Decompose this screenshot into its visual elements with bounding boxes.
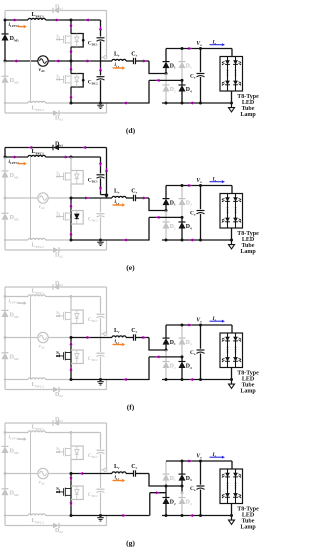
svg-text:(g): (g) bbox=[126, 539, 135, 548]
wire top left bbox=[5, 19, 28, 21]
wire CDC1 bottom lead bbox=[100, 41, 102, 61]
wire S2 drain lead bbox=[70, 61, 72, 74]
inductor LPFC1 bbox=[28, 155, 46, 157]
diode DM1 bbox=[2, 34, 9, 41]
svg-text:Lamp: Lamp bbox=[240, 525, 256, 531]
inductor LPFC1 bbox=[28, 18, 46, 20]
node neg rail Co bbox=[199, 102, 202, 105]
wire lamp bottom lead bbox=[231, 368, 233, 380]
wire CDC1 bottom lead bbox=[100, 454, 102, 474]
wire D3 cathode leg bbox=[181, 186, 183, 199]
node AC2 crossover bbox=[181, 485, 184, 488]
LED D_L bottom bbox=[233, 493, 238, 497]
wire D2 cathode leg bbox=[165, 350, 167, 362]
arrow current switch branch bbox=[70, 66, 73, 70]
capacitor CDC2 bbox=[97, 352, 105, 354]
wire to Db2 line bbox=[4, 516, 6, 526]
node S1 body-diode branch bbox=[82, 39, 85, 42]
wire Db2 line right bbox=[59, 112, 107, 114]
diode DM1 bbox=[2, 171, 9, 178]
diode Db1 bbox=[53, 420, 59, 426]
wire Db1 line left bbox=[5, 147, 53, 149]
wire Db2 line right bbox=[59, 249, 107, 251]
capacitor CDC1 bbox=[97, 449, 105, 451]
node A input top bbox=[4, 295, 7, 298]
node neg rail lamp bbox=[230, 378, 233, 381]
node LED string ellipsis dot bbox=[227, 209, 229, 211]
transistor S2 bbox=[57, 212, 71, 221]
node AC1 bbox=[165, 209, 168, 212]
source vAC bbox=[38, 193, 48, 203]
wire S2 source lead bbox=[70, 500, 72, 516]
wire to Db2 line bbox=[4, 103, 6, 113]
wire S1 body-diode branch bbox=[71, 310, 83, 324]
wire node A to Db1 line bbox=[4, 11, 6, 21]
wire Db1 line right bbox=[59, 10, 107, 12]
inductor LPFC2 bbox=[28, 514, 46, 516]
wire DM1 anode lead bbox=[4, 177, 6, 198]
wire S2 channel path bbox=[70, 211, 72, 225]
wire Db1 branch stub bbox=[101, 469, 104, 471]
ground DC-link bbox=[97, 381, 104, 383]
diode D1 bbox=[163, 62, 170, 69]
wire Co top lead bbox=[200, 186, 202, 210]
node rail Co bbox=[199, 460, 202, 463]
diode Db1 bbox=[53, 8, 59, 14]
node LED string ellipsis dot bbox=[227, 346, 229, 348]
arrow current AC2 bbox=[155, 355, 159, 358]
wire bottom return bbox=[71, 102, 150, 104]
node rail D3 bbox=[181, 47, 184, 50]
wire AC1 return bbox=[150, 492, 166, 494]
arrow current switch branch bbox=[70, 51, 73, 55]
circuit panel (g) bbox=[2, 417, 260, 548]
diode D2 bbox=[163, 222, 170, 229]
diode S1 body diode bbox=[76, 171, 78, 174]
capacitor Cr bbox=[133, 334, 135, 340]
arrow Io blue bbox=[210, 320, 222, 322]
wire mid to Lr bbox=[71, 473, 112, 475]
capacitor Cr bbox=[133, 195, 135, 201]
LED D_L bottom bbox=[225, 81, 230, 85]
wire DM1 anode lead bbox=[4, 317, 6, 338]
wire lamp bottom lead bbox=[231, 228, 233, 240]
wire CDC2 top lead bbox=[100, 198, 102, 212]
wire D2 anode leg bbox=[165, 229, 167, 241]
wire CDC1 top lead bbox=[100, 297, 102, 314]
arrow current DC-link bbox=[99, 163, 102, 167]
wire DM2 cathode lead bbox=[4, 338, 6, 354]
wire DM1 cathode lead bbox=[4, 433, 6, 447]
inductor LPFC2 bbox=[28, 378, 46, 380]
arrow current bottom return bbox=[122, 239, 126, 242]
wire Db2 line left bbox=[5, 249, 53, 251]
wire bottom left bbox=[5, 515, 28, 517]
wire top to CDC1 corner bbox=[71, 432, 101, 434]
inductor Lr bbox=[112, 196, 126, 198]
wire AC2 return bbox=[149, 79, 182, 81]
diode S2 body diode bbox=[76, 211, 78, 214]
wire mid to Lr bbox=[71, 197, 112, 199]
wire vAC to S node bbox=[49, 337, 71, 339]
wire Db1 line right bbox=[59, 422, 107, 424]
wire bottom left bbox=[5, 379, 28, 381]
wire Db1 branch elbow bbox=[101, 194, 107, 196]
diode Db2 bbox=[53, 110, 59, 116]
wire Db2 line right bbox=[59, 525, 107, 527]
wire Db1 branch down bbox=[106, 423, 108, 470]
arrow current resonant bbox=[85, 197, 89, 200]
LED D_L top bbox=[233, 473, 238, 477]
wire D2 anode leg bbox=[165, 504, 167, 516]
wire D3 anode leg bbox=[181, 205, 183, 217]
node LED string ellipsis dot bbox=[235, 346, 237, 348]
wire CDC1 top lead bbox=[100, 20, 102, 37]
arrow iLPFC1 bbox=[18, 163, 24, 165]
ground DC-link bbox=[97, 241, 104, 243]
arrow Io blue bbox=[210, 181, 222, 183]
wire Db1 branch down bbox=[106, 148, 108, 195]
wire S2 drain lead bbox=[70, 198, 72, 211]
node rail Co bbox=[199, 184, 202, 187]
diode S1 body diode bbox=[76, 446, 78, 449]
wire AC2 return bbox=[149, 356, 182, 358]
wire Cr to bridge bbox=[136, 473, 150, 475]
wire Db1 line right bbox=[59, 147, 107, 149]
wire D1 cathode leg bbox=[165, 186, 167, 199]
wire D3 anode leg bbox=[181, 68, 183, 80]
wire Db2 line left bbox=[5, 112, 53, 114]
arrow current resonant bbox=[142, 336, 146, 339]
inductor LPFC2 bbox=[28, 101, 46, 103]
circuit panel (d) bbox=[2, 4, 260, 135]
arrow current top wire bbox=[14, 156, 18, 159]
wire DM2 anode lead bbox=[4, 220, 6, 240]
diode D1 bbox=[163, 474, 170, 481]
node S2 gate terminal bbox=[56, 215, 58, 217]
wire S2 body-diode branch bbox=[71, 74, 83, 88]
wire return to bottom bbox=[149, 493, 151, 516]
node A input top bbox=[4, 156, 7, 159]
wire S2 source lead bbox=[70, 87, 72, 103]
node LED string ellipsis dot bbox=[235, 75, 237, 77]
wire Cr to bridge bbox=[136, 197, 150, 199]
wire Db2 line up bbox=[106, 103, 108, 113]
arrow current bottom return bbox=[122, 514, 126, 517]
wire Db1 line left bbox=[5, 10, 53, 12]
node LED string ellipsis dot bbox=[235, 212, 237, 214]
node LED string ellipsis dot bbox=[227, 485, 229, 487]
wire CDC1 bottom lead bbox=[100, 318, 102, 338]
diode D2 bbox=[163, 498, 170, 505]
wire S1 source lead bbox=[70, 460, 72, 474]
diode D4 bbox=[179, 85, 186, 92]
source vAC bbox=[38, 56, 48, 66]
wire S2 drain lead bbox=[70, 338, 72, 351]
source vAC bbox=[38, 332, 48, 342]
wire D3 anode leg bbox=[181, 345, 183, 357]
T8 LED tube lamp box bbox=[220, 57, 243, 92]
wire Db1 branch down bbox=[106, 287, 108, 334]
arrow current negative rail bbox=[189, 514, 193, 517]
wire Lr to Cr bbox=[126, 60, 134, 62]
wire mid to Lr bbox=[71, 337, 112, 339]
wire AC1 feed bbox=[149, 474, 166, 487]
node S1-S2 midpoint bbox=[70, 336, 73, 339]
node LED string ellipsis dot bbox=[227, 351, 229, 353]
node neg rail lamp bbox=[230, 102, 233, 105]
node neg rail D2 bbox=[165, 378, 168, 381]
arrow current AC2 bbox=[155, 216, 159, 219]
arrow current resonant bbox=[87, 60, 91, 63]
wire LED string bbox=[227, 57, 229, 92]
arrow current DC-link bbox=[99, 26, 102, 30]
wire S1 drain lead bbox=[70, 433, 72, 447]
wire S2 body-diode branch bbox=[71, 211, 83, 225]
node AC2 bbox=[181, 79, 184, 82]
arrow current switch branch bbox=[70, 25, 73, 29]
node Db1 branch open terminal bbox=[104, 468, 107, 471]
wire Co top lead bbox=[200, 461, 202, 485]
wire S1 channel path bbox=[70, 446, 72, 460]
node S1-S2 midpoint bbox=[70, 60, 73, 63]
svg-text:Lamp: Lamp bbox=[240, 112, 256, 118]
capacitor CDC1 bbox=[97, 174, 105, 176]
LED D_L top bbox=[225, 337, 230, 341]
wire DM1 anode lead bbox=[4, 40, 6, 61]
arrow current DC-link bbox=[99, 187, 102, 191]
wire AC1 feed bbox=[149, 198, 166, 211]
node S2 source bottom bbox=[70, 239, 73, 242]
wire output negative rail bbox=[162, 102, 232, 104]
wire DM2 anode lead bbox=[4, 359, 6, 379]
node LED string ellipsis dot bbox=[227, 75, 229, 77]
wire rail to lamp bbox=[231, 186, 233, 194]
T8 LED tube lamp box bbox=[220, 333, 243, 368]
node S2 source bottom bbox=[70, 102, 73, 105]
inductor Lr bbox=[112, 336, 126, 338]
wire DM2 cathode lead bbox=[4, 474, 6, 490]
wire mid left bbox=[5, 337, 37, 339]
wire bottom return bbox=[71, 515, 150, 517]
wire Db1 line right bbox=[59, 286, 107, 288]
node S2 gate terminal bbox=[56, 355, 58, 357]
node rail D3 bbox=[181, 460, 184, 463]
arrow current switch branch bbox=[70, 231, 73, 235]
node rail D3 bbox=[181, 184, 184, 187]
wire bottom left bbox=[5, 102, 28, 104]
wire DM1 cathode lead bbox=[4, 297, 6, 311]
node LED string ellipsis dot bbox=[227, 70, 229, 72]
diode D2 bbox=[163, 85, 170, 92]
capacitor CDC2 bbox=[97, 76, 105, 78]
node A input top bbox=[4, 19, 7, 22]
wire lamp bottom lead bbox=[231, 504, 233, 516]
node neg rail D2 bbox=[165, 102, 168, 105]
node neg rail D2 bbox=[165, 514, 168, 517]
node LED string ellipsis dot bbox=[235, 70, 237, 72]
node LED string ellipsis dot bbox=[235, 209, 237, 211]
arrow current bottom return bbox=[122, 102, 126, 105]
node LED string ellipsis dot bbox=[235, 72, 237, 74]
transistor S1 bbox=[57, 172, 71, 181]
diode S2 body diode bbox=[76, 74, 78, 77]
wire S1 body-diode branch bbox=[71, 34, 83, 48]
wire S1 body-diode branch bbox=[71, 171, 83, 185]
node AC1 bbox=[165, 72, 168, 75]
wire Db2 line up bbox=[106, 516, 108, 526]
transistor S1 bbox=[57, 35, 71, 44]
node S1 gate terminal bbox=[56, 38, 58, 40]
wire CDC1 bottom lead bbox=[100, 178, 102, 194]
arrow current output rail bbox=[188, 324, 192, 327]
wire Co bottom lead bbox=[200, 354, 202, 380]
arrow current resonant bbox=[87, 336, 91, 339]
wire input link vertical bbox=[30, 20, 32, 103]
wire output positive rail bbox=[166, 185, 232, 187]
wire AC2 to bottom bbox=[148, 217, 150, 240]
node bottom left bbox=[4, 239, 6, 241]
capacitor Cr bbox=[133, 58, 135, 64]
LED D_L bottom bbox=[233, 81, 238, 85]
wire AC2 return bbox=[149, 216, 182, 218]
node bottom left bbox=[4, 514, 6, 516]
diode D3 bbox=[179, 62, 186, 69]
LED D_L bottom bbox=[225, 357, 230, 361]
wire LED string bbox=[235, 57, 237, 92]
diode Db2 bbox=[53, 387, 59, 393]
wire mid left bbox=[5, 60, 37, 62]
wire top to CDC1 corner bbox=[71, 19, 101, 21]
LED D_L top bbox=[225, 60, 230, 64]
node LED string ellipsis dot bbox=[235, 485, 237, 487]
wire Db1 line left bbox=[5, 286, 53, 288]
capacitor CDC1 bbox=[97, 313, 105, 315]
node neg rail D2 bbox=[165, 239, 168, 242]
wire top to CDC1 corner bbox=[71, 296, 101, 298]
wire CDC2 bottom lead bbox=[100, 217, 102, 240]
wire node A to Db1 line bbox=[4, 287, 6, 297]
wire CDC1 top lead bbox=[100, 157, 102, 174]
node neg rail D4 bbox=[181, 378, 184, 381]
arrow current top wire bbox=[65, 156, 69, 159]
wire S2 channel path bbox=[70, 350, 72, 364]
node S1 gate terminal bbox=[56, 315, 58, 317]
wire CDC2 bottom lead bbox=[100, 357, 102, 380]
wire D4 cathode leg bbox=[181, 80, 183, 85]
wire LED string bbox=[235, 194, 237, 229]
diode Db2 bbox=[53, 247, 59, 253]
wire D1 anode leg bbox=[165, 481, 167, 486]
ground output chassis bbox=[231, 103, 233, 108]
inductor LPFC2 bbox=[28, 238, 46, 240]
diode S2 body diode bbox=[76, 350, 78, 353]
circuit panel (f) bbox=[2, 281, 260, 412]
node neg rail Co bbox=[199, 239, 202, 242]
wire D3 cathode leg bbox=[181, 49, 183, 62]
LED D_L top bbox=[225, 473, 230, 477]
arrow current bottom return bbox=[122, 378, 126, 381]
wire bottom left bbox=[5, 239, 28, 241]
arrow current Db1 line 2 bbox=[82, 146, 86, 149]
wire S1 drain lead bbox=[70, 20, 72, 34]
diode D3 bbox=[179, 474, 186, 481]
wire S2 source lead bbox=[70, 224, 72, 240]
wire S1 source lead bbox=[70, 324, 72, 338]
wire output positive rail bbox=[166, 48, 232, 50]
ground output chassis bbox=[231, 380, 233, 385]
arrow iLr bbox=[113, 204, 123, 206]
svg-text:(f): (f) bbox=[127, 403, 135, 412]
wire DM2 anode lead bbox=[4, 83, 6, 103]
transistor S2 bbox=[57, 352, 71, 361]
wire top to S1 bbox=[46, 296, 72, 298]
wire S2 drain lead bbox=[70, 474, 72, 487]
node neg rail D4 bbox=[181, 239, 184, 242]
wire Db1 branch down bbox=[106, 11, 108, 58]
capacitor CDC2 bbox=[97, 213, 105, 215]
ground DC-link bbox=[97, 517, 104, 519]
ground output chassis bbox=[231, 240, 233, 245]
arrow current resonant bbox=[143, 197, 147, 200]
diode D3 bbox=[179, 338, 186, 345]
arrow current resonant bbox=[143, 60, 147, 63]
wire S1 source lead bbox=[70, 47, 72, 61]
node LED string ellipsis dot bbox=[235, 351, 237, 353]
arrow iLr bbox=[113, 67, 123, 69]
wire LPFC2 to S2 bbox=[46, 102, 72, 104]
wire input link vertical bbox=[30, 157, 32, 240]
ground DC-link bbox=[97, 104, 104, 106]
node S1 drain bbox=[70, 295, 73, 298]
wire Db2 line up bbox=[106, 240, 108, 250]
node S2 source bottom bbox=[70, 514, 73, 517]
wire D1 anode leg bbox=[165, 345, 167, 350]
node rail Co bbox=[199, 47, 202, 50]
wire D4 cathode leg bbox=[181, 493, 183, 498]
arrow current Db1 line bbox=[28, 146, 32, 149]
LED D_L bottom bbox=[233, 357, 238, 361]
node Db1 branch open terminal bbox=[104, 332, 107, 335]
wire S2 body-diode branch bbox=[71, 486, 83, 500]
wire rail to lamp bbox=[231, 49, 233, 57]
LED D_L bottom bbox=[225, 493, 230, 497]
wire S2 source lead bbox=[70, 364, 72, 380]
arrow iLPFC1 bbox=[18, 26, 24, 28]
node neg rail Co bbox=[199, 378, 202, 381]
wire D4 cathode leg bbox=[181, 357, 183, 362]
wire AC2 to bottom bbox=[148, 357, 150, 380]
wire D2 cathode leg bbox=[165, 486, 167, 498]
wire S1 channel path bbox=[70, 310, 72, 324]
ground output chassis bbox=[231, 516, 233, 521]
node bottom left bbox=[4, 102, 6, 104]
svg-text:Lamp: Lamp bbox=[240, 249, 256, 255]
inductor Lr bbox=[112, 59, 126, 61]
node LED string ellipsis dot bbox=[227, 207, 229, 209]
svg-text:(e): (e) bbox=[126, 263, 135, 272]
wire vAC to S node bbox=[49, 60, 71, 62]
node S1 drain bbox=[70, 431, 73, 434]
wire LPFC2 to S2 bbox=[46, 379, 72, 381]
capacitor Co bbox=[197, 485, 205, 487]
wire vAC to S node bbox=[49, 197, 71, 199]
node LED string ellipsis dot bbox=[235, 482, 237, 484]
node CDC2 bottom bbox=[99, 378, 102, 381]
wire D3 cathode leg bbox=[181, 325, 183, 338]
wire Db2 line left bbox=[5, 525, 53, 527]
wire CDC2 top lead bbox=[100, 474, 102, 488]
